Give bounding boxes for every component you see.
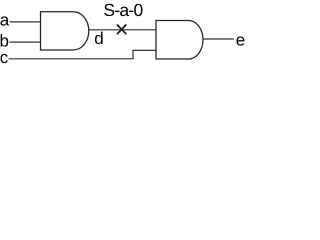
wire a [10, 21, 41, 23]
svg-text:d: d [94, 29, 103, 48]
AND gate U1 [41, 12, 89, 50]
AND gate U2 [156, 21, 203, 60]
wire e (output) [203, 38, 234, 40]
wire d (net with stuck-at fault) [89, 29, 156, 31]
wire c [9, 50, 157, 58]
svg-text:e: e [236, 31, 245, 50]
svg-text:a: a [0, 10, 10, 29]
wire b [10, 41, 41, 43]
svg-text:c: c [0, 48, 9, 67]
fault mark X on wire d [117, 25, 126, 35]
svg-text:S-a-0: S-a-0 [103, 0, 143, 20]
